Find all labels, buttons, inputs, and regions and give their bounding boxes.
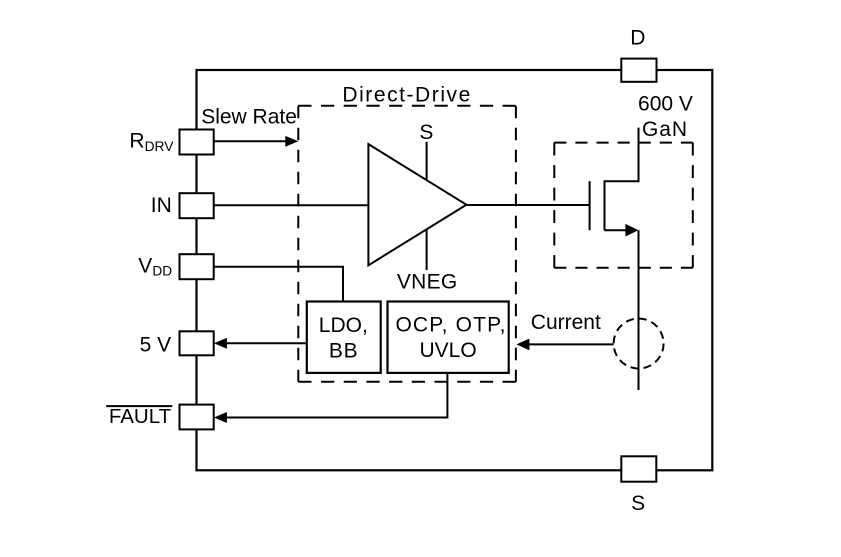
svg-text:S: S bbox=[631, 492, 645, 515]
svg-text:IN: IN bbox=[151, 194, 172, 217]
svg-text:D: D bbox=[630, 27, 645, 50]
svg-text:OCP, OTP,: OCP, OTP, bbox=[395, 313, 506, 336]
svg-text:VDD: VDD bbox=[138, 254, 172, 278]
svg-text:LDO,: LDO, bbox=[319, 314, 368, 337]
svg-text:FAULT: FAULT bbox=[109, 405, 172, 428]
svg-text:5 V: 5 V bbox=[140, 333, 172, 356]
svg-text:Current: Current bbox=[531, 311, 601, 334]
svg-text:UVLO: UVLO bbox=[420, 339, 477, 362]
svg-text:Direct-Drive: Direct-Drive bbox=[342, 84, 471, 107]
svg-text:VNEG: VNEG bbox=[397, 270, 458, 293]
svg-text:RDRV: RDRV bbox=[129, 130, 174, 154]
svg-text:600 V: 600 V bbox=[638, 93, 693, 116]
svg-text:Slew Rate: Slew Rate bbox=[201, 105, 297, 128]
svg-text:GaN: GaN bbox=[642, 118, 688, 141]
svg-text:BB: BB bbox=[329, 340, 359, 363]
svg-text:S: S bbox=[419, 121, 433, 144]
